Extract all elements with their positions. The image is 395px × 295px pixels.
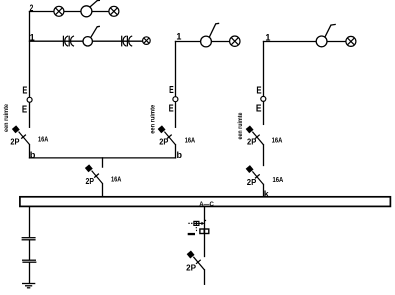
svg-text:een ruimte: een ruimte	[238, 112, 244, 140]
svg-text:2: 2	[30, 3, 34, 13]
svg-text:1: 1	[176, 31, 181, 41]
svg-text:2P: 2P	[10, 137, 20, 146]
svg-text:16A: 16A	[185, 138, 195, 145]
svg-text:16A: 16A	[272, 137, 283, 144]
svg-text:E: E	[256, 85, 261, 97]
svg-text:E: E	[22, 104, 27, 116]
svg-text:2P: 2P	[159, 137, 169, 146]
svg-text:1: 1	[30, 32, 35, 42]
svg-text:E: E	[22, 85, 27, 97]
svg-text:16A: 16A	[273, 177, 284, 184]
svg-text:2P: 2P	[186, 264, 197, 273]
svg-text:E: E	[169, 103, 174, 115]
svg-text:A—C: A—C	[199, 201, 214, 208]
svg-text:2P: 2P	[247, 178, 257, 187]
svg-text:E: E	[256, 103, 262, 115]
svg-text:b: b	[30, 150, 36, 160]
svg-text:een ruimte: een ruimte	[4, 103, 10, 132]
svg-text:16A: 16A	[38, 137, 48, 144]
svg-text:een ruimte: een ruimte	[150, 104, 156, 134]
svg-text:16A: 16A	[111, 176, 121, 183]
svg-text:2P: 2P	[247, 138, 257, 147]
svg-text:k: k	[264, 188, 269, 198]
svg-text:2P: 2P	[86, 177, 95, 186]
svg-text:b: b	[177, 150, 183, 160]
svg-text:E: E	[169, 84, 174, 96]
svg-text:1: 1	[265, 32, 270, 42]
